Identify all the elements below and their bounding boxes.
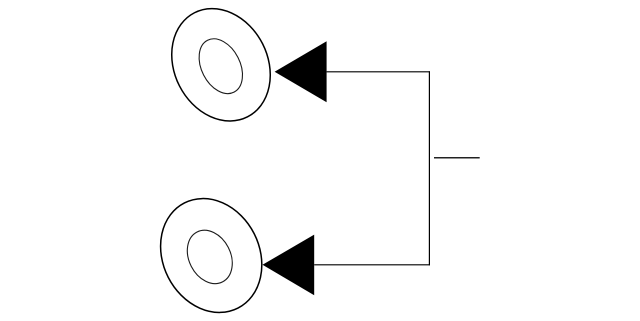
horn H2 outer rim (bottom wheel outer ellipse) xyxy=(141,181,280,321)
arrow A2 (bottom filled triangle pointing left) xyxy=(263,235,315,296)
horn H1 outer rim (top wheel outer ellipse) xyxy=(153,0,289,138)
arrow A1 (top filled triangle pointing left) xyxy=(275,41,327,102)
wire from arrow A1 to vertical bus xyxy=(327,71,430,73)
horn H2 hub (bottom wheel inner ellipse) xyxy=(179,223,241,292)
horn H1 hub (top wheel inner ellipse) xyxy=(190,32,251,101)
vertical bus wire xyxy=(428,71,430,265)
leader dash (short horizontal segment at right) xyxy=(434,157,480,159)
wire from arrow A2 to vertical bus xyxy=(314,264,430,266)
